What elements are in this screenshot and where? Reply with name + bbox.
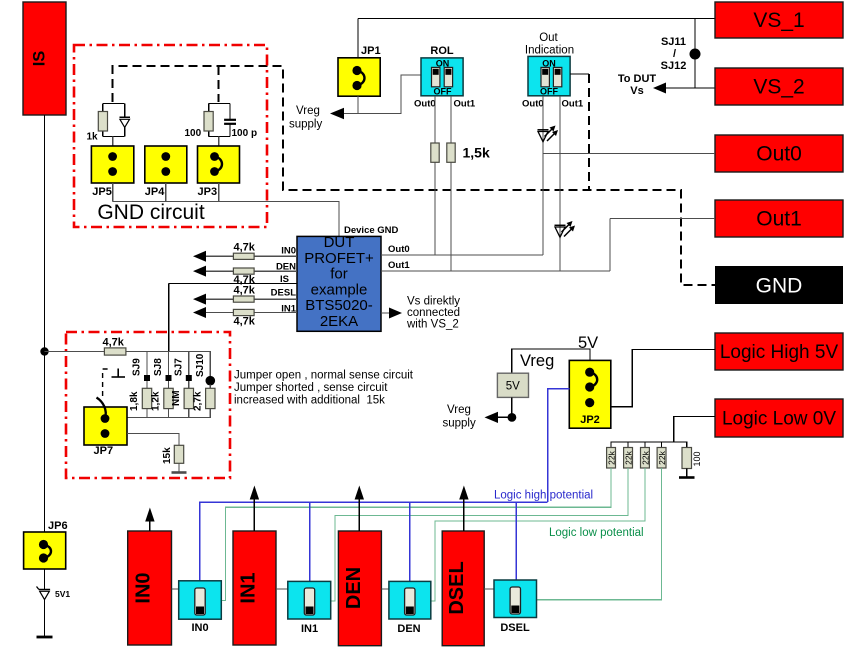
svg-text:DEN: DEN [276,261,296,272]
wire green 22k-3 to DEN switch [431,468,645,601]
svg-text:IN1: IN1 [238,572,260,603]
svg-text:IN1: IN1 [281,304,297,315]
SJ8 branch [164,352,173,418]
capacitor 100p plates [224,120,236,124]
resistor 1k body [98,112,107,132]
wire GND bus to DUT Device GND [113,202,339,237]
resistor 22k (3) [641,448,651,469]
wire sense rail y351.5 [45,351,105,353]
pin Out0 line [381,254,543,256]
arrow Vreg supply (left) [330,108,344,119]
svg-text:Out0: Out0 [522,99,544,110]
resistor 100 body [204,112,213,132]
svg-text:DEN: DEN [397,623,420,635]
svg-text:4,7k: 4,7k [234,242,256,254]
svg-text:SJ11: SJ11 [661,36,686,48]
svg-text:22k: 22k [607,450,617,464]
wire LED1 chain x560 [559,96,561,271]
wire Out0 net to connector [543,153,715,155]
node Vreg supply junction [508,413,517,422]
svg-text:100: 100 [692,451,702,466]
svg-text:100: 100 [185,128,202,139]
arrow above IN0 [145,508,154,532]
wire DEN box to switch [381,588,389,590]
svg-text:SJ9: SJ9 [132,358,143,376]
jumper JP1 [338,58,380,96]
arrow Vs direktly (right) [381,308,402,319]
svg-text:Vreg: Vreg [447,404,471,416]
wire 15k to ground [178,463,180,472]
svg-text:IN1: IN1 [301,623,318,635]
wire blue drop IN1 [309,502,311,581]
svg-text:VS_2: VS_2 [753,76,804,99]
svg-text:with VS_2: with VS_2 [406,319,459,331]
SJ9 branch [142,352,151,418]
svg-text:Logic low potential: Logic low potential [549,527,644,539]
svg-text:IN0: IN0 [191,622,208,634]
regulator 5V box [497,373,528,397]
svg-text:JP4: JP4 [145,186,165,198]
1k/diode parallel network [103,104,125,137]
svg-text:2EKA: 2EKA [320,313,358,330]
svg-text:4,7k: 4,7k [234,284,256,296]
wire JP2 right pin to Logic High [611,350,715,407]
LED D1 (Out1 indicator) [555,221,576,237]
svg-text:1,2k: 1,2k [151,391,162,411]
svg-text:Out0: Out0 [388,244,410,255]
svg-text:DSEL: DSEL [500,622,530,634]
SJ7 branch [184,352,193,418]
svg-text:VS_1: VS_1 [753,9,804,32]
pin IN0 wire + arrow [193,251,297,262]
svg-text:IN0: IN0 [133,572,155,603]
wire IS pin down to sense rail [168,284,170,352]
switch IN0 (slide) [179,581,222,619]
pin IS wire [169,283,297,285]
GND circuit red dash-dot frame [74,45,267,227]
svg-text:supply: supply [289,119,322,131]
wire JP7 to 15k [127,434,179,446]
svg-text:Indication: Indication [525,45,574,57]
svg-text:Out1: Out1 [562,99,584,110]
arrow above DSEL [459,486,468,532]
svg-text:GND circuit: GND circuit [97,201,205,224]
switch DSEL (slide) [494,580,537,618]
resistor 4,7k (DEN) [233,268,254,274]
connector Logic High 5V [715,333,843,370]
node SJ11/SJ12 junction dot [690,49,701,60]
svg-text:SJ8: SJ8 [153,358,164,376]
wire LED0 chain x543 [542,96,544,255]
resistor 4,7k (IN1) [233,309,254,315]
svg-text:connected: connected [407,307,460,319]
wire: top Vs bus y18.5 from JP1 to VS_1 [358,18,715,20]
wire 5V node [512,349,590,373]
svg-text:SJ12: SJ12 [661,60,687,72]
wire green 22k-4 to DSEL switch [537,468,662,600]
svg-text:4,7k: 4,7k [234,316,256,328]
switch DEN (slide) [389,581,431,619]
label Vreg supply (bottom) [443,404,476,430]
svg-text:increased with additional 15k: increased with additional 15k [234,395,385,407]
dashed stub from Out Indication [588,74,590,190]
svg-text:Logic High 5V: Logic High 5V [720,342,839,363]
wire JP6 to zener [44,569,46,589]
switch Out Indication [525,32,574,97]
wire JP4 down [165,183,167,202]
svg-text:2,7k: 2,7k [193,391,204,411]
dashed net: GND-circuit to GND connector [113,66,715,285]
wire Out1 net to connector [610,218,715,220]
svg-text:Out0: Out0 [756,143,802,166]
wire: To DUT Vs line y88 [656,87,715,89]
wire ROL Out1 down + resistor 1,5k b [450,96,452,271]
pin IN1 wire + arrow [193,307,297,318]
arrow Vreg supply bottom (left) [485,412,499,423]
connector Logic Low 0V [715,399,843,437]
svg-text:Out: Out [539,32,558,44]
svg-text:1,5k: 1,5k [463,145,490,161]
input DSEL (red, rotated) [442,531,484,646]
pin DEN wire + arrow [193,266,297,277]
wire ROL Out0 down + resistor 1,5k a [434,96,436,255]
wire 100 network to JP3 [218,137,220,147]
svg-text:JP7: JP7 [94,445,114,457]
svg-text:22k: 22k [624,450,634,464]
svg-text:supply: supply [443,418,476,430]
svg-text:BTS5020-: BTS5020- [305,297,373,314]
wire green 22k-1 to IN0 switch [221,468,611,601]
svg-text:1,8k: 1,8k [129,391,140,411]
wire Out Indication right to dashed [570,73,589,75]
svg-text:22k: 22k [641,450,651,464]
resistor 22k (4) [657,448,667,469]
jumper JP5 [91,146,133,183]
dashed stub to 100/100p network [218,66,220,102]
svg-text:SJ7: SJ7 [173,358,184,376]
jumper JP7 [84,398,127,446]
svg-text:4,7k: 4,7k [103,337,125,349]
wire: IS vertical main line [44,115,46,532]
wire Vreg supply line [334,75,421,114]
connector VS_2 [715,68,843,105]
wire 1k network to JP5 [112,137,114,147]
input DEN (red, rotated) [338,531,381,646]
100/100p parallel network [209,104,230,137]
LED D0 (Out0 indicator) [538,126,559,142]
svg-text:JP2: JP2 [580,414,600,426]
resistor 22k (1) [607,448,617,469]
svg-text:Jumper open , normal sense cir: Jumper open , normal sense circuit [234,370,414,382]
pin Out1 line [381,270,610,272]
wire IN0 box to switch [172,588,179,590]
svg-text:1k: 1k [87,132,99,143]
node junction on IS line at sense rail [40,347,48,355]
resistor 15k [174,445,183,463]
diode D (1k network) [119,117,130,127]
svg-text:/: / [673,48,676,60]
wire IN1 box to switch [276,588,288,590]
wire 22k top rail [611,442,687,448]
connector Out1 [715,200,843,237]
wire green 22k-2 to IN1 switch [331,468,628,601]
jumper JP2 (3-pin) [569,360,611,428]
svg-text:JP5: JP5 [92,186,112,198]
resistor 4,7k (IN0) [233,253,254,259]
wire sense bottom rail [127,416,211,418]
svg-text:ROL: ROL [430,45,454,57]
svg-text:Vs direktly: Vs direktly [407,296,460,308]
resistor 22k (2) [624,448,634,469]
connector IS (red, rotated) [23,2,66,115]
sense circuit red dash-dot frame [66,332,230,478]
jumper JP3 (shorted) [198,146,240,183]
jumper JP6 [24,532,66,569]
wire 100 to ground [686,469,688,478]
wire blue logic-high bus [200,502,548,581]
resistor 4,7k (DESL) [233,296,254,302]
jumper JP4 [145,146,187,183]
svg-text:IN0: IN0 [281,246,296,257]
svg-text:JP1: JP1 [361,45,381,57]
svg-text:22k: 22k [657,450,667,464]
wire blue drop DEN [409,502,411,581]
arrow above DEN [355,486,364,532]
ground (100) [679,476,695,479]
svg-text:Vreg: Vreg [520,352,554,370]
svg-text:Logic high potential: Logic high potential [494,490,593,502]
wire JP5 down [112,183,114,202]
svg-text:IS: IS [31,51,49,67]
svg-text:Out1: Out1 [756,208,802,231]
svg-text:Out0: Out0 [414,99,436,110]
wire JP1 bottom to Vreg supply [357,96,359,113]
svg-text:DUT: DUT [324,234,355,251]
svg-text:NM: NM [171,390,182,406]
svg-text:OFF: OFF [540,87,558,97]
ground (15k) [172,471,187,474]
wire blue drop DSEL [515,502,517,580]
svg-text:JP3: JP3 [198,186,218,198]
zener diode 5V1 [37,587,51,600]
arrow To DUT Vs (left) [653,83,666,94]
wire zener to ground [44,600,46,638]
svg-text:Out1: Out1 [388,260,410,271]
svg-text:Jumper shorted , sense circuit: Jumper shorted , sense circuit [234,382,388,394]
wire DSEL box to switch [484,588,494,590]
input IN0 (red, rotated) [128,531,172,645]
ground (IS line) [37,636,53,639]
svg-text:5V: 5V [506,381,520,393]
svg-text:15k: 15k [162,447,173,464]
wire JP1 top [357,19,359,58]
wire JP3 down [218,183,220,202]
svg-text:5V1: 5V1 [55,589,70,599]
connector VS_1 [715,2,843,38]
pin DESL wire + arrow [193,294,297,305]
switch IN1 (slide) [288,581,331,619]
wire 5V box down [511,397,513,417]
svg-text:100 p: 100 p [232,128,258,139]
resistor 100 (pulldown) [682,448,702,469]
svg-text:PROFET+: PROFET+ [304,250,374,267]
resistor 1,5k (a) [431,143,439,162]
svg-text:IS: IS [280,274,289,285]
SJ10 branch (with dot) [206,352,216,418]
svg-text:example: example [311,281,368,298]
svg-text:To DUT: To DUT [618,73,657,85]
wire Vreg supply arrow line [489,416,512,418]
connector GND (black) [715,266,843,304]
wire Logic Low feed [674,417,715,443]
svg-text:JP6: JP6 [48,520,68,532]
wire blue JP2 left pin [548,389,570,502]
resistor 4,7k (sense) [104,348,126,355]
label Vs direktly connected with VS_2 [406,296,460,331]
wire: SJ11/SJ12 vertical x695 [694,19,696,89]
svg-text:DESL: DESL [271,288,297,299]
svg-text:Vreg: Vreg [296,105,320,117]
DUT U1 PROFET+ BTS5020-2EKA [297,234,381,331]
ground tick symbol near JP7 [112,369,126,378]
arrow above IN1 [250,486,259,532]
svg-text:SJ10: SJ10 [195,353,206,377]
svg-text:OFF: OFF [434,87,452,97]
svg-text:DSEL: DSEL [446,561,468,614]
resistor 1,5k (b) [447,143,455,162]
dashed jumper ghost (JP7 open position) [103,369,111,396]
wire Out1 net vertical x610 [609,219,611,272]
svg-text:GND: GND [756,275,803,298]
switch ROL [421,45,463,97]
svg-text:Logic Low 0V: Logic Low 0V [722,409,836,430]
svg-text:DEN: DEN [343,567,365,609]
svg-text:for: for [330,266,348,283]
note jumper open/shorted text [234,370,414,407]
svg-text:Out1: Out1 [454,99,476,110]
input IN1 (red, rotated) [233,531,276,645]
svg-text:Vs: Vs [630,85,643,97]
connector Out0 [715,135,843,172]
